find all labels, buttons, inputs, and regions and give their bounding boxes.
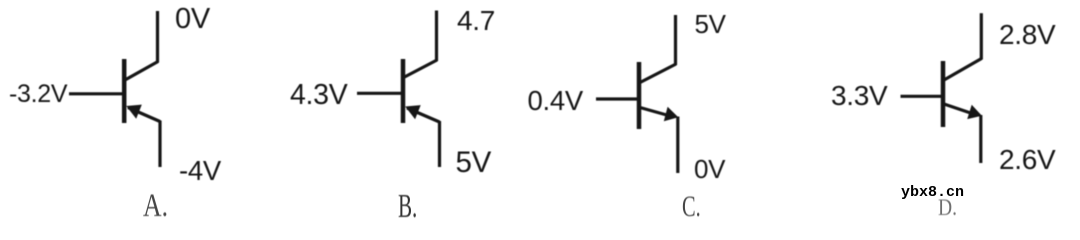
wire: Q4 collector vertical to 2.8V	[980, 13, 983, 59]
wire: Q2 emitter diagonal	[407, 108, 440, 122]
wire: Q4 collector diagonal	[944, 59, 982, 81]
option label A.	[143, 190, 168, 223]
wire: Q1 emitter vertical to -4V	[158, 121, 161, 168]
wire: Q1 emitter diagonal	[128, 108, 160, 122]
option label B.	[398, 190, 417, 224]
wire: Q3 emitter diagonal	[640, 108, 672, 117]
node label: Q1 base voltage -3.2V	[9, 82, 67, 107]
wire: Q4 emitter diagonal	[944, 104, 975, 115]
node label: Q4 base voltage 3.3V	[831, 82, 887, 110]
node label: Q2 base voltage 4.3V	[290, 81, 347, 110]
node label: Q3 base voltage 0.4V	[528, 87, 583, 115]
wire: Q2 emitter vertical to 5V	[438, 121, 441, 167]
transistor Q3 (NPN) base bar	[637, 62, 642, 129]
Q4 emitter arrow (points outward, NPN)	[967, 105, 982, 119]
watermark ybx8.cn	[901, 185, 964, 200]
wire: Q1 collector vertical to 0V	[156, 11, 159, 63]
wire: Q2 collector diagonal	[405, 60, 438, 77]
Q3 emitter arrow (points outward, NPN)	[664, 107, 679, 122]
option label D.	[938, 196, 957, 219]
transistor Q1 (PNP) base bar	[122, 59, 127, 123]
wire: Q2 base lead	[357, 92, 403, 95]
node label: Q2 emitter voltage 5V	[456, 148, 491, 178]
transistor Q4 (NPN) base bar	[941, 61, 946, 127]
node label: Q4 collector voltage 2.8V	[999, 21, 1055, 49]
Q1 emitter arrow (points toward base, PNP)	[126, 105, 142, 119]
wire: Q4 emitter vertical to 2.6V	[979, 115, 982, 163]
option label C.	[682, 192, 701, 222]
node label: Q1 collector voltage 0V	[175, 5, 210, 34]
node label: Q4 emitter voltage 2.6V	[999, 146, 1055, 174]
wire: Q2 collector vertical to 4.7	[435, 11, 438, 62]
wire: Q1 base lead	[69, 92, 124, 95]
wire: Q4 base lead	[901, 95, 944, 98]
node label: Q2 collector voltage 4.7	[457, 7, 495, 35]
wire: Q3 collector diagonal	[640, 64, 676, 83]
Q2 emitter arrow (points toward base, PNP)	[405, 105, 421, 119]
transistor Q2 (PNP) base bar	[401, 59, 406, 123]
wire: Q3 base lead	[596, 97, 639, 100]
node label: Q3 collector voltage 5V	[695, 11, 726, 37]
wire: Q1 collector diagonal	[125, 62, 158, 81]
node label: Q3 emitter voltage 0V	[694, 156, 725, 182]
wire: Q3 collector vertical to 5V	[674, 15, 677, 65]
wire: Q3 emitter vertical to 0V	[676, 117, 679, 174]
node label: Q1 emitter voltage -4V	[179, 157, 221, 185]
